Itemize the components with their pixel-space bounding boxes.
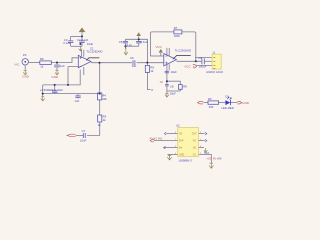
svg-text:100k: 100k — [174, 34, 181, 38]
svg-text:C9: C9 — [199, 56, 203, 60]
svg-text:OUT: OUT — [192, 134, 197, 136]
svg-text:MIC: MIC — [15, 63, 20, 67]
svg-text:+5V IN: +5V IN — [207, 157, 216, 161]
svg-text:TLC2262AID: TLC2262AID — [175, 48, 191, 52]
svg-text:D1: D1 — [225, 94, 229, 98]
svg-text:330: 330 — [209, 105, 214, 109]
svg-text:C10: C10 — [204, 151, 210, 155]
svg-text:100uF: 100uF — [199, 64, 207, 68]
svg-text:+2.5VREF: +2.5VREF — [40, 88, 53, 92]
svg-text:10uF: 10uF — [80, 138, 87, 142]
svg-text:+5V: +5V — [217, 156, 222, 160]
svg-text:10uF: 10uF — [170, 91, 177, 95]
svg-text:10uF: 10uF — [171, 70, 178, 74]
svg-text:10k: 10k — [102, 97, 107, 101]
svg-text:VS: VS — [179, 134, 183, 136]
svg-text:1uF: 1uF — [60, 64, 65, 68]
svg-text:R6: R6 — [40, 57, 44, 61]
svg-text:VCC: VCC — [184, 64, 191, 68]
svg-text:R2: R2 — [208, 97, 212, 101]
svg-text:1uF: 1uF — [75, 99, 80, 103]
svg-text:AUDIO JACK: AUDIO JACK — [206, 70, 223, 74]
svg-text:1uF: 1uF — [132, 64, 137, 68]
svg-text:C8: C8 — [170, 84, 174, 88]
svg-text:GND: GND — [52, 75, 60, 79]
svg-text:J1: J1 — [212, 50, 215, 54]
svg-text:BYP: BYP — [179, 141, 184, 143]
svg-text:GND: GND — [179, 154, 184, 156]
svg-text:LM386N-3: LM386N-3 — [179, 159, 193, 163]
svg-text:10uF: 10uF — [87, 42, 94, 46]
svg-text:0.1uF: 0.1uF — [63, 41, 70, 45]
svg-text:R7: R7 — [174, 26, 178, 30]
svg-text:C4 10uF: C4 10uF — [52, 88, 63, 92]
svg-text:C6: C6 — [130, 56, 134, 60]
svg-text:0.1uF: 0.1uF — [141, 40, 148, 44]
svg-text:C7: C7 — [82, 129, 86, 133]
svg-text:0.1u: 0.1u — [127, 43, 133, 47]
svg-text:P+5V IN1: P+5V IN1 — [150, 136, 163, 140]
svg-text:U2: U2 — [176, 123, 180, 127]
svg-text:C5: C5 — [119, 40, 123, 44]
svg-text:R8: R8 — [183, 84, 187, 88]
svg-text:VO: VO — [193, 141, 197, 143]
svg-text:VCC: VCC — [156, 45, 163, 49]
svg-text:P4: P4 — [23, 53, 27, 57]
svg-text:GND: GND — [242, 101, 250, 105]
svg-text:LED-RED: LED-RED — [222, 106, 234, 110]
svg-text:GND: GND — [22, 75, 30, 79]
svg-text:TLC2262AID: TLC2262AID — [86, 50, 102, 54]
